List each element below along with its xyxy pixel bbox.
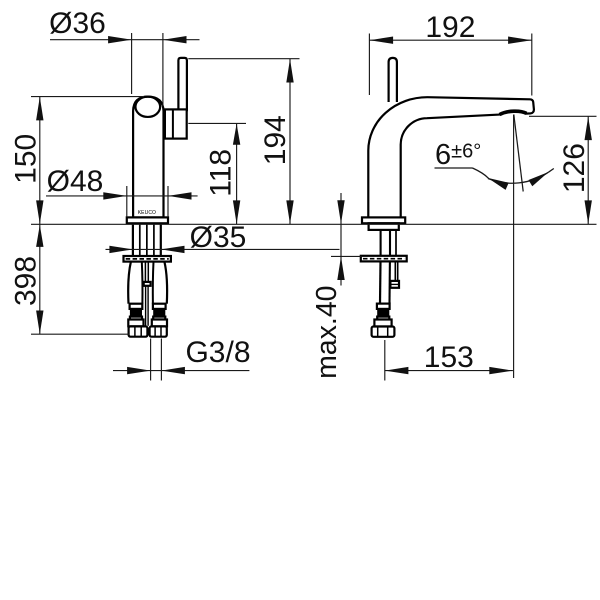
svg-text:Ø48: Ø48 xyxy=(47,165,104,198)
svg-text:192: 192 xyxy=(425,11,475,44)
svg-text:153: 153 xyxy=(424,341,474,374)
svg-text:KEUCO: KEUCO xyxy=(138,210,156,216)
svg-text:Ø36: Ø36 xyxy=(49,7,106,40)
svg-text:Ø35: Ø35 xyxy=(190,221,247,254)
svg-text:194: 194 xyxy=(259,115,292,165)
svg-text:150: 150 xyxy=(10,134,43,184)
svg-text:118: 118 xyxy=(205,149,238,197)
svg-text:6±6°: 6±6° xyxy=(435,139,481,171)
svg-text:max.40: max.40 xyxy=(311,285,343,378)
svg-text:398: 398 xyxy=(10,256,43,306)
svg-text:G3/8: G3/8 xyxy=(185,336,250,369)
svg-text:126: 126 xyxy=(558,143,591,193)
